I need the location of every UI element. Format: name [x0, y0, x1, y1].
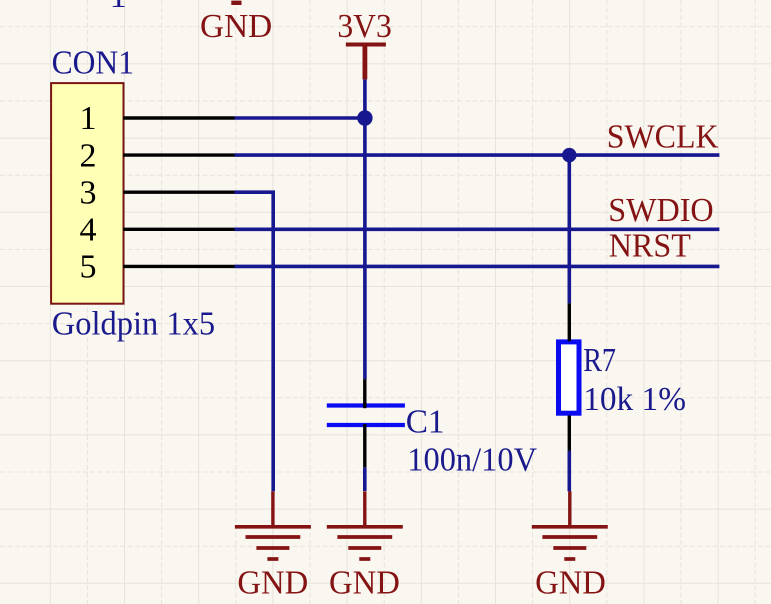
svg-text:1: 1	[110, 0, 127, 15]
svg-text:GND: GND	[200, 8, 272, 45]
svg-text:GND: GND	[535, 564, 606, 601]
svg-text:2: 2	[80, 137, 97, 174]
svg-text:GND: GND	[237, 564, 308, 601]
svg-text:100n/10V: 100n/10V	[407, 442, 537, 479]
svg-text:SWDIO: SWDIO	[608, 192, 714, 229]
svg-text:R7: R7	[583, 342, 616, 379]
svg-text:NRST: NRST	[609, 228, 691, 265]
svg-text:3V3: 3V3	[337, 8, 392, 45]
svg-text:GND: GND	[329, 564, 400, 601]
svg-text:1: 1	[80, 100, 97, 137]
svg-text:3: 3	[80, 174, 97, 211]
svg-text:SWCLK: SWCLK	[607, 119, 719, 156]
svg-text:4: 4	[80, 212, 97, 249]
svg-text:10k 1%: 10k 1%	[583, 381, 686, 418]
svg-text:C1: C1	[406, 403, 445, 440]
svg-text:Goldpin 1x5: Goldpin 1x5	[52, 306, 215, 343]
svg-text:5: 5	[80, 249, 97, 286]
svg-text:CON1: CON1	[52, 45, 134, 82]
